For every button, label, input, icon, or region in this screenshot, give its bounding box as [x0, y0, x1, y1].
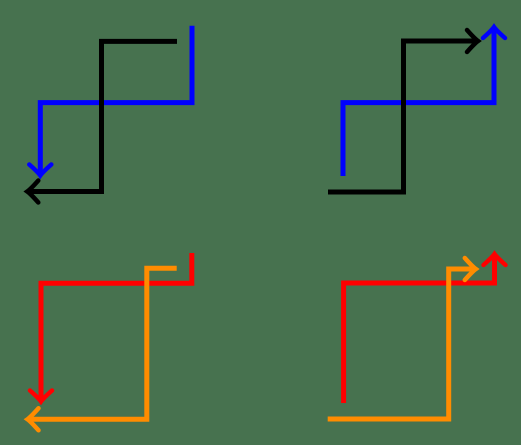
black path (top-right quadrant)	[328, 41, 478, 192]
black arrowhead right (top-right)	[467, 30, 478, 52]
red arrowhead up (bottom-right)	[484, 254, 506, 265]
blue arrowhead up (top-right)	[483, 27, 505, 38]
orange arrowhead right (bottom-right)	[465, 258, 476, 280]
blue path (top-left quadrant)	[40, 26, 192, 176]
red path (bottom-right quadrant)	[344, 254, 495, 403]
red path (bottom-left quadrant)	[41, 253, 192, 402]
orange path (bottom-right quadrant)	[328, 269, 476, 419]
orange arrowhead left (bottom-left)	[28, 408, 39, 430]
blue arrowhead down (top-left)	[29, 165, 51, 176]
red arrowhead down (bottom-left)	[30, 391, 52, 402]
orange path (bottom-left quadrant)	[28, 268, 177, 419]
blue path (top-right quadrant)	[343, 27, 494, 176]
black path (top-left quadrant)	[27, 41, 177, 191]
black arrowhead left (top-left)	[27, 181, 38, 203]
